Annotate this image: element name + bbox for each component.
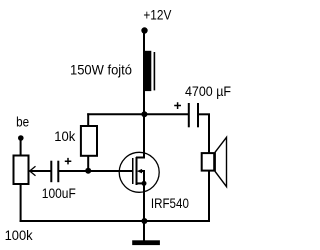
inductor L1 150W fojto: thick bar — [145, 51, 152, 91]
node B: gate junction — [85, 168, 91, 174]
wire: +12V down through choke to drain node — [143, 31, 145, 158]
wire: wiper to C1 — [30, 170, 51, 172]
plus sign of C1 — [65, 158, 72, 165]
Q1 source link — [136, 182, 145, 184]
terminal be — [18, 135, 24, 141]
wire: be down to pot — [20, 138, 22, 158]
svg-text:100k: 100k — [5, 227, 34, 243]
wire: junction right to 4700uF — [144, 113, 188, 115]
terminal +12V — [141, 27, 147, 33]
ground — [132, 240, 160, 245]
potentiometer R2 100k body — [14, 156, 29, 185]
wire: body/source vertical to ground junction — [143, 171, 145, 221]
svg-text:+12V: +12V — [143, 6, 172, 22]
plus sign of C2 — [174, 102, 181, 109]
svg-text:100uF: 100uF — [42, 185, 76, 201]
svg-text:10k: 10k — [54, 128, 76, 144]
node C: ground junction — [141, 218, 147, 224]
wire: corner down to 10k top — [87, 113, 89, 126]
wire: 10k bottom to gate node — [87, 156, 89, 172]
wire: C1 right plate to gate — [59, 170, 134, 172]
wire: C2 right plate to speaker drop — [199, 113, 210, 115]
inductor L1 core line — [153, 52, 155, 90]
speaker LS1 body — [202, 153, 215, 171]
wire: vertical down to speaker — [208, 114, 210, 221]
transistor Q1 IRF540 body circle — [119, 152, 159, 192]
Q1 body arrow — [137, 169, 142, 174]
resistor R1 10k — [81, 126, 97, 156]
Q1 gate bar — [132, 158, 134, 184]
capacitor C1 100uF plates — [50, 161, 52, 183]
capacitor C2 4700uF plates — [188, 103, 190, 127]
svg-text:be: be — [16, 114, 29, 130]
Q1 body-source dot — [142, 181, 147, 186]
Q1 channel bar — [135, 157, 137, 185]
wire: pot bottom down to ground rail — [20, 182, 22, 222]
svg-text:4700 µF: 4700 µF — [185, 83, 231, 99]
svg-text:IRF540: IRF540 — [151, 195, 189, 211]
Q1 drain link — [136, 157, 145, 159]
wiper arrow of R2 — [30, 166, 36, 175]
node A: drain junction — [141, 111, 147, 117]
svg-text:150W fojtó: 150W fojtó — [70, 62, 132, 78]
wire: bottom rail — [20, 220, 210, 222]
speaker LS1 cone — [215, 137, 226, 186]
wire: down to ground — [143, 221, 145, 241]
wire: junction left to 10k resistor — [87, 113, 144, 115]
